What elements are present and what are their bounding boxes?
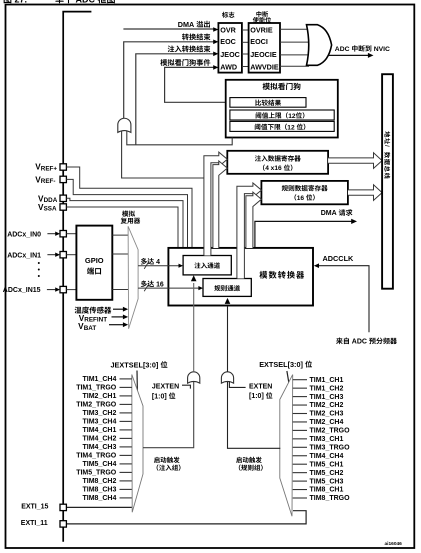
wire JEXTEN gate to injected channels [191, 275, 197, 372]
svg-text:REF+: REF+ [41, 165, 58, 172]
wire: gate right input / watchdog data line [127, 131, 232, 145]
svg-text:16: 16 [156, 281, 164, 288]
pad EXTI_11 [60, 521, 66, 527]
wires GPIO to mux [112, 235, 128, 289]
trigger input TIM3_CH4 (injected) [83, 419, 132, 426]
trigger input TIM1_TRGO (injected) [76, 385, 132, 392]
svg-text:TIM8_CH1: TIM8_CH1 [310, 487, 344, 494]
svg-text:TIM2_CH3: TIM2_CH3 [310, 411, 344, 418]
svg-text:TIM8_CH3: TIM8_CH3 [83, 487, 117, 494]
label ADCx_IN0 [7, 231, 60, 238]
svg-text:REFINT: REFINT [84, 317, 107, 324]
label: analog watchdog event [160, 59, 210, 66]
svg-text:TIM5_CH1: TIM5_CH1 [310, 461, 344, 468]
wire IN15 to GPIO [66, 289, 76, 291]
trigger input TIM5_CH4 (injected) [83, 461, 132, 468]
label from ADC prescaler [336, 338, 397, 346]
lower threshold box [230, 121, 334, 131]
wire: analog watchdog event to AWD [165, 65, 230, 102]
trigger input TIM2_CH4 (regular) [293, 419, 344, 426]
svg-text:TIM1_CH3: TIM1_CH3 [310, 394, 344, 401]
svg-text:DDA: DDA [44, 197, 58, 204]
A/D converter box [168, 248, 313, 306]
trigger input TIM5_CH2 (regular) [293, 470, 344, 477]
svg-text:BAT: BAT [84, 325, 97, 332]
arrow VBAT [109, 322, 128, 327]
label EXTSEL [259, 360, 312, 369]
injected data registers box [227, 151, 328, 174]
label temperature sensor [75, 307, 112, 314]
label up-to-4 [141, 258, 160, 266]
wire IN1 to GPIO [66, 254, 76, 256]
svg-text:ADCx_IN15: ADCx_IN15 [3, 287, 41, 294]
wire mux out to EXTEN gate [228, 382, 281, 448]
wire up-to-4 [138, 262, 183, 269]
JEXTSEL pointer [136, 371, 138, 392]
trigger input TIM8_CH1 (regular) [293, 487, 344, 494]
svg-text:OVR: OVR [220, 25, 236, 34]
svg-text:TIM3_CH4: TIM3_CH4 [83, 419, 117, 426]
trigger input TIM2_CH1 (injected) [83, 393, 132, 400]
svg-text:TIM5_CH3: TIM5_CH3 [310, 478, 344, 485]
trigger input TIM4_CH1 (injected) [83, 427, 132, 434]
wire: end of conversion to EOC (from OR gate) [124, 40, 219, 119]
wire VSSA [66, 207, 178, 248]
pad ADCx_IN15 [60, 286, 66, 292]
svg-text:TIM8_CH4: TIM8_CH4 [83, 495, 117, 502]
svg-text:TIM5_CH4: TIM5_CH4 [83, 461, 117, 468]
svg-text:EXTEN: EXTEN [249, 383, 272, 390]
injected channels box [183, 256, 231, 275]
regular trigger mux [280, 375, 293, 517]
svg-text:TIM3_CH2: TIM3_CH2 [83, 410, 117, 417]
trigger input TIM2_TRGO (injected) [76, 402, 132, 409]
pad VREF- [60, 176, 66, 182]
trigger input TIM4_CH4 (regular) [293, 453, 344, 460]
trigger input TIM1_CH3 (regular) [293, 394, 344, 401]
svg-text:TIM4_TRGO: TIM4_TRGO [76, 453, 117, 460]
label JEXTEN [152, 384, 191, 401]
bus arrow: regular channel to regular register 2 [246, 192, 262, 248]
ellipsis dots [38, 262, 40, 277]
svg-text:REF-: REF- [41, 178, 56, 185]
label EXTI_15 [21, 504, 48, 511]
trigger input TIM2_CH3 (regular) [293, 411, 344, 418]
trigger input TIM3_CH1 (regular) [293, 436, 344, 443]
interrupt enable box [249, 23, 280, 73]
wire: DMA request [255, 219, 357, 248]
OR gate (EOC) [118, 118, 131, 132]
label up-to-16 [141, 281, 164, 289]
svg-text:EXTSEL[3:0]: EXTSEL[3:0] [259, 360, 303, 369]
analog mux label [121, 210, 141, 223]
wire ADCCLK [314, 263, 369, 332]
trigger input TIM8_CH2 (injected) [83, 478, 132, 485]
trigger input TIM8_CH4 (injected) [83, 495, 132, 502]
wire EXTI_11 to mux [66, 511, 306, 524]
wire EXTI_15 to mux [66, 506, 131, 508]
analog mux [128, 226, 138, 328]
GPIO port box [76, 226, 112, 300]
svg-text:TIM4_CH2: TIM4_CH2 [83, 436, 117, 443]
flags box label [222, 12, 234, 18]
svg-text:12: 12 [287, 124, 295, 131]
label ADCx_IN15 [3, 287, 60, 294]
wire VDDA [66, 198, 183, 248]
regular channel box [203, 279, 251, 297]
svg-text:GPIO: GPIO [85, 256, 104, 265]
trigger input TIM8_TRGO (regular) [293, 495, 350, 502]
svg-text:TIM4_CH4: TIM4_CH4 [310, 453, 344, 460]
main analog pad rail [63, 12, 91, 542]
address/data bus [382, 74, 393, 289]
svg-text:TIM1_CH1: TIM1_CH1 [310, 377, 344, 384]
pad ADCx_IN1 [60, 252, 66, 258]
wire VREF+ [66, 167, 192, 248]
label VREF+ [35, 163, 57, 173]
svg-text:TIM1_TRGO: TIM1_TRGO [76, 385, 117, 392]
label VREFINT [79, 314, 107, 324]
svg-text:12: 12 [288, 113, 296, 120]
svg-text:[1:0]: [1:0] [152, 393, 167, 400]
svg-text:DMA: DMA [321, 210, 337, 217]
label: end of conversion [182, 33, 210, 40]
upper threshold box [230, 110, 334, 120]
label start trigger injected [154, 457, 181, 471]
svg-text:EOC: EOC [220, 37, 236, 46]
trigger input TIM3_TRGO (regular) [293, 445, 350, 452]
svg-text:ADCCLK: ADCCLK [323, 254, 355, 263]
trigger input TIM3_CH2 (injected) [83, 410, 132, 417]
trigger input TIM4_CH3 (injected) [83, 444, 132, 451]
regular data register box [261, 181, 348, 204]
svg-text:TIM3_TRGO: TIM3_TRGO [310, 445, 351, 452]
EXTEN gate [221, 372, 233, 383]
svg-text:OVRIE: OVRIE [250, 25, 273, 34]
bus arrow: injected channels to injected registers 2 [213, 161, 227, 248]
label VBAT [78, 322, 96, 332]
svg-text:EXTI_11: EXTI_11 [21, 520, 48, 527]
label: DMA overflow [178, 20, 210, 29]
svg-text:JEXTSEL[3:0]: JEXTSEL[3:0] [111, 360, 159, 369]
svg-text:ADCx_IN0: ADCx_IN0 [7, 231, 41, 238]
EXTSEL pointer [287, 371, 290, 389]
label start trigger regular [236, 457, 263, 471]
bus arrow: injected channels to injected registers 1 [204, 152, 227, 255]
svg-text:4 x16: 4 x16 [265, 165, 282, 172]
svg-text:/: / [383, 145, 390, 147]
label: DMA request [321, 209, 353, 217]
wire: injected end of conversion to JEOC [136, 52, 219, 145]
pad VREF+ [60, 164, 66, 170]
wires: flags to interrupt enable [242, 30, 249, 67]
label EXTEN [229, 381, 272, 400]
wire IN0 to GPIO [66, 233, 76, 235]
bus arrow: injected registers to bus [328, 153, 382, 169]
compare result box [230, 98, 306, 108]
analog watchdog box [226, 80, 338, 138]
trigger input TIM2_TRGO (regular) [293, 428, 350, 435]
A/D converter label [259, 271, 304, 279]
svg-text:TIM4_CH3: TIM4_CH3 [83, 444, 117, 451]
svg-text:TIM2_CH4: TIM2_CH4 [310, 419, 344, 426]
svg-text:TIM5_TRGO: TIM5_TRGO [76, 470, 117, 477]
trigger input TIM5_CH1 (regular) [293, 461, 344, 468]
pad VDDA [60, 195, 66, 201]
wire: ADC interrupt to NVIC [329, 53, 374, 58]
wire mux out to JEXTEN gate [143, 382, 194, 448]
svg-text:TIM8_CH2: TIM8_CH2 [83, 478, 117, 485]
wires: enable bits to OR gate [280, 29, 309, 66]
bus arrow: regular register to bus [348, 185, 382, 201]
label ADCCLK [323, 254, 355, 263]
interrupt enable label [253, 11, 271, 23]
label ADCx_IN1 [7, 252, 60, 259]
trigger input TIM5_TRGO (injected) [76, 470, 132, 477]
label JEXTSEL [111, 360, 168, 369]
svg-text:JEOC: JEOC [220, 50, 240, 59]
wire: gate left input from injected bus [122, 131, 204, 179]
arrow temp sensor [113, 307, 128, 312]
trigger input TIM8_CH3 (injected) [83, 487, 132, 494]
figure title (cropped at top) [4, 0, 115, 5]
wire: DMA overflow to OVR [123, 27, 218, 32]
svg-text:TIM1_CH4: TIM1_CH4 [83, 376, 117, 383]
wire VREF- [66, 179, 187, 248]
trigger input TIM1_CH1 (regular) [293, 377, 344, 384]
label: ADC interrupt to NVIC [335, 45, 390, 53]
OR gate (interrupt) [307, 25, 332, 66]
trigger input TIM2_CH2 (regular) [293, 402, 344, 409]
svg-text:ADCx_IN1: ADCx_IN1 [7, 252, 41, 259]
svg-text:TIM1_CH2: TIM1_CH2 [310, 385, 344, 392]
svg-text:TIM8_TRGO: TIM8_TRGO [310, 495, 351, 502]
svg-text:JEOCIE: JEOCIE [250, 50, 277, 59]
trigger input TIM1_CH2 (regular) [293, 385, 344, 392]
svg-text:SSA: SSA [44, 206, 57, 213]
label: injected end of conversion [168, 45, 211, 52]
svg-text:TIM3_CH1: TIM3_CH1 [310, 436, 344, 443]
svg-text:TIM4_CH1: TIM4_CH1 [83, 427, 117, 434]
flags box [218, 23, 242, 73]
bus arrow: regular channel to regular register 1 [237, 183, 262, 279]
pad VSSA [60, 204, 66, 210]
wire up-to-16 [138, 285, 203, 292]
svg-text:ADC: ADC [335, 46, 350, 53]
svg-text:AWVDIE: AWVDIE [250, 62, 279, 71]
svg-text:TIM2_CH2: TIM2_CH2 [310, 402, 344, 409]
label EXTI_11 [21, 520, 48, 527]
label VREF- [35, 175, 55, 185]
JEXTEN gate [188, 372, 200, 383]
trigger input TIM4_TRGO (injected) [76, 453, 132, 460]
svg-text:ADC: ADC [352, 339, 367, 346]
label VSSA [38, 203, 57, 213]
svg-text:AWD: AWD [220, 62, 237, 71]
svg-text:TIM2_TRGO: TIM2_TRGO [76, 402, 117, 409]
watermark ai16046 [385, 541, 403, 547]
svg-text:TIM5_CH2: TIM5_CH2 [310, 470, 344, 477]
svg-text:JEXTEN: JEXTEN [152, 384, 179, 391]
svg-text:[1:0]: [1:0] [249, 393, 264, 400]
svg-text:EXTI_15: EXTI_15 [21, 504, 48, 511]
pad EXTI_15 [60, 504, 66, 510]
svg-text:TIM2_TRGO: TIM2_TRGO [310, 428, 351, 435]
injected trigger mux [132, 375, 143, 513]
svg-text:ai16046: ai16046 [385, 541, 403, 547]
svg-text:NVIC: NVIC [374, 46, 390, 53]
trigger input TIM5_CH3 (regular) [293, 478, 344, 485]
pad ADCx_IN0 [60, 231, 66, 237]
label VDDA [38, 194, 58, 204]
svg-text:4: 4 [156, 259, 160, 266]
trigger input TIM4_CH2 (injected) [83, 436, 132, 443]
analog watchdog title [263, 83, 301, 90]
svg-text:TIM2_CH1: TIM2_CH1 [83, 393, 117, 400]
wire EXTEN gate to regular channel [225, 298, 231, 372]
svg-text:DMA: DMA [178, 20, 194, 29]
trigger input TIM1_CH4 (injected) [83, 376, 132, 383]
svg-text:EOCI: EOCI [250, 37, 268, 46]
svg-text:16: 16 [297, 195, 305, 202]
arrow VREFINT [112, 315, 129, 320]
